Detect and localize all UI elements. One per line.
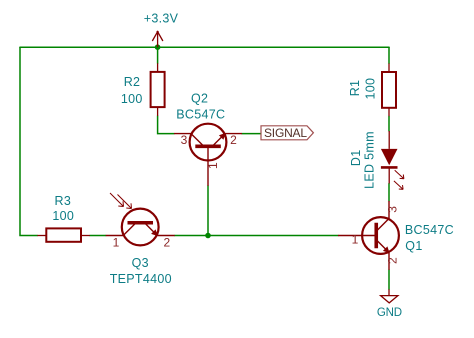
svg-text:100: 100: [121, 92, 143, 106]
svg-text:BC547C: BC547C: [405, 223, 454, 237]
svg-text:SIGNAL: SIGNAL: [264, 126, 307, 140]
svg-text:1: 1: [113, 236, 120, 250]
svg-text:R1: R1: [348, 80, 362, 97]
svg-text:Q1: Q1: [405, 239, 422, 253]
svg-text:3: 3: [181, 133, 188, 147]
svg-text:R3: R3: [55, 194, 72, 208]
svg-text:D1: D1: [349, 150, 363, 167]
svg-text:+3.3V: +3.3V: [144, 12, 179, 26]
svg-text:BC547C: BC547C: [176, 107, 225, 121]
svg-text:2: 2: [164, 235, 171, 249]
svg-text:100: 100: [364, 78, 378, 100]
svg-text:100: 100: [52, 209, 74, 223]
svg-text:R2: R2: [124, 75, 141, 89]
svg-text:3: 3: [385, 206, 399, 213]
svg-text:2: 2: [230, 133, 237, 147]
svg-text:Q3: Q3: [132, 256, 149, 270]
svg-text:LED 5mm: LED 5mm: [362, 131, 376, 189]
svg-text:2: 2: [385, 257, 399, 264]
svg-text:GND: GND: [377, 307, 402, 319]
svg-text:1: 1: [206, 162, 220, 169]
svg-text:TEPT4400: TEPT4400: [110, 272, 172, 286]
svg-text:Q2: Q2: [191, 91, 208, 105]
svg-text:1: 1: [352, 232, 359, 246]
